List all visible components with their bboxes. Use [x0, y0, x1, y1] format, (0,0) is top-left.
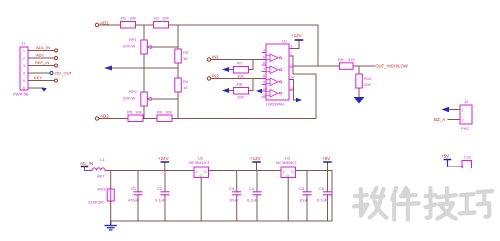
- svg-text:C6: C6: [319, 186, 325, 191]
- connector J1: [13, 41, 29, 97]
- svg-text:REF_IN: REF_IN: [35, 60, 49, 65]
- svg-text:AD2: AD2: [36, 53, 45, 58]
- svg-text:U3: U3: [285, 156, 291, 161]
- svg-text:20K-W: 20K-W: [123, 96, 135, 101]
- svg-text:R8: R8: [237, 82, 243, 87]
- wire J2 pin2: [448, 119, 460, 121]
- svg-text:10K: 10K: [129, 16, 136, 21]
- svg-text:U2: U2: [198, 156, 204, 161]
- svg-text:BZ_A: BZ_A: [434, 117, 445, 122]
- node IN1 pin: [207, 55, 219, 62]
- resistor R2: [154, 16, 170, 29]
- svg-text:LM339AN: LM339AN: [266, 102, 284, 107]
- power flag +5V: [322, 156, 331, 171]
- resistor R9: [338, 57, 355, 69]
- node IN2 pin: [207, 74, 219, 81]
- svg-text:+5V: +5V: [322, 156, 330, 161]
- svg-text:+5V: +5V: [441, 154, 449, 159]
- wire: [85, 170, 93, 172]
- capacitor C5: [299, 171, 311, 222]
- svg-text:5: 5: [263, 56, 265, 60]
- pad pin3: [55, 64, 58, 67]
- wire bottom rail right: [172, 74, 316, 119]
- ground symbol R10: [354, 97, 365, 104]
- ground arrow R8: [222, 88, 229, 93]
- watermark 软件技巧: [354, 188, 492, 220]
- svg-text:PH2: PH2: [461, 126, 470, 131]
- comparator input dashes: [267, 56, 270, 95]
- svg-text:L1: L1: [100, 157, 105, 162]
- svg-text:RV1: RV1: [98, 187, 106, 192]
- svg-text:R1: R1: [121, 16, 127, 21]
- svg-text:U1: U1: [282, 39, 288, 44]
- wire: [448, 166, 463, 168]
- svg-text:0.1uF: 0.1uF: [247, 198, 258, 203]
- potentiometer RP1: [123, 37, 151, 54]
- svg-text:+24V: +24V: [158, 156, 169, 161]
- ground arrow left: [104, 66, 112, 71]
- svg-text:2: 2: [23, 57, 25, 61]
- char 件: [392, 188, 418, 220]
- wire top rail right: [169, 25, 319, 66]
- node AD1 pin: [95, 21, 109, 27]
- wire drop to shunt R8: [252, 79, 254, 91]
- svg-text:MC78M12CT: MC78M12CT: [189, 161, 211, 165]
- wire J1 pin3: [28, 65, 54, 67]
- wire ground rail: [111, 220, 332, 222]
- pin numbers: [263, 45, 294, 98]
- svg-text:R5: R5: [127, 110, 133, 115]
- wire: [177, 63, 179, 78]
- svg-text:10K: 10K: [162, 16, 169, 21]
- wire: [136, 24, 154, 26]
- varistor RV1: [88, 187, 114, 205]
- svg-text:6: 6: [23, 87, 25, 91]
- node +5V_OUT label: [50, 71, 72, 76]
- wire feedback loop C-D: [289, 80, 294, 91]
- char 技: [426, 188, 456, 219]
- SECTION: power supply bottom: [80, 156, 332, 230]
- wire right end: [331, 171, 333, 222]
- ground arrow right of U1: [296, 98, 302, 102]
- resistor R8: [234, 82, 249, 100]
- svg-text:8: 8: [263, 75, 265, 79]
- capacitor C2: [155, 171, 169, 222]
- wire J1 pin2: [28, 57, 54, 59]
- svg-text:10K: 10K: [165, 110, 172, 115]
- ground arrow R7: [222, 67, 229, 72]
- wire J1 pin1: [28, 50, 54, 52]
- wire: [249, 69, 254, 71]
- svg-text:4: 4: [263, 49, 265, 53]
- svg-text:C3: C3: [229, 186, 235, 191]
- svg-text:10K: 10K: [237, 74, 244, 79]
- svg-text:R10: R10: [364, 76, 372, 81]
- svg-text:1K: 1K: [183, 56, 188, 61]
- op-amp U1 LM339: [262, 39, 294, 107]
- ground J1 pin6: [41, 88, 47, 92]
- wire RP2 wiper: [151, 98, 178, 100]
- node AD2 pin: [95, 114, 109, 121]
- svg-text:IN2: IN2: [212, 74, 220, 79]
- power flag +5V small: [441, 154, 451, 167]
- wire IN1 to U1: [211, 59, 266, 61]
- ground arrow U1 input: [256, 89, 262, 93]
- svg-text:R7: R7: [237, 61, 243, 66]
- wire junction down: [358, 66, 360, 74]
- svg-text:LS1: LS1: [464, 155, 472, 160]
- wire drop to shunt R7: [252, 60, 254, 70]
- svg-text:C2: C2: [157, 186, 163, 191]
- resistor R4: [175, 78, 189, 92]
- wire: [262, 90, 266, 92]
- wire comparator out to R9: [293, 65, 339, 67]
- wire to gnd arrow: [294, 90, 297, 100]
- pin stubs right: [289, 49, 293, 91]
- resistor R1: [121, 16, 137, 29]
- capacitor C4: [247, 171, 261, 222]
- node AC input: [80, 161, 93, 171]
- svg-text:PWR-5B: PWR-5B: [13, 92, 29, 97]
- comparator A: [270, 54, 278, 62]
- wire R9 to label: [353, 65, 373, 67]
- power flag +12V raw: [158, 156, 169, 171]
- svg-text:+5V_OUT: +5V_OUT: [54, 71, 72, 76]
- comparator B: [270, 66, 278, 74]
- svg-text:5: 5: [23, 79, 25, 83]
- svg-text:2: 2: [290, 52, 292, 56]
- svg-text:2: 2: [462, 119, 464, 123]
- wire right divider vertical top: [177, 25, 179, 49]
- svg-text:C4: C4: [249, 186, 255, 191]
- svg-text:RP2: RP2: [129, 89, 138, 94]
- regulator U2 7812: [189, 156, 211, 222]
- wire output A stub: [289, 55, 293, 57]
- svg-text:R2: R2: [154, 16, 160, 21]
- char 巧: [460, 191, 492, 217]
- wire: [143, 54, 145, 92]
- svg-text:+12V: +12V: [250, 156, 261, 161]
- svg-text:0.1uF: 0.1uF: [155, 198, 166, 203]
- power +12V flag U1: [291, 33, 303, 49]
- resistor R5: [127, 110, 143, 122]
- svg-text:1: 1: [23, 49, 25, 53]
- wire: [177, 92, 179, 118]
- wire: [229, 90, 233, 92]
- svg-text:11: 11: [263, 93, 267, 97]
- wire: [229, 69, 233, 71]
- svg-text:3: 3: [23, 64, 25, 68]
- svg-text:7: 7: [263, 68, 265, 72]
- comparator C: [270, 78, 278, 86]
- wire gnd arrow to divider: [112, 67, 178, 69]
- svg-text:R9: R9: [338, 57, 344, 62]
- wire: [110, 201, 112, 221]
- svg-text:O: O: [204, 170, 207, 174]
- svg-text:3: 3: [290, 45, 292, 49]
- svg-text:KEY: KEY: [34, 75, 42, 80]
- svg-text:470: 470: [348, 57, 355, 62]
- connector J2: [460, 99, 472, 131]
- svg-text:C5: C5: [299, 186, 305, 191]
- wire J1 pin4: [28, 72, 50, 74]
- svg-text:10: 10: [263, 87, 267, 91]
- wire: [143, 106, 145, 118]
- wire RP1 wiper to R3 top: [151, 46, 178, 48]
- svg-text:6: 6: [263, 61, 265, 65]
- svg-text:MC78M05CT: MC78M05CT: [276, 161, 298, 165]
- svg-text:4: 4: [23, 72, 25, 76]
- svg-text:»OUT_HIGH/LOW: »OUT_HIGH/LOW: [373, 64, 408, 69]
- inductor L1: [92, 157, 105, 179]
- pin stubs left: [262, 53, 266, 98]
- pad pin5: [55, 79, 58, 82]
- wire: [358, 88, 360, 97]
- svg-text:S10K300: S10K300: [88, 200, 105, 205]
- svg-text:RP1: RP1: [129, 37, 138, 42]
- ground power: [105, 221, 116, 230]
- ground arrow J2: [442, 107, 450, 112]
- svg-text:10uF: 10uF: [229, 198, 239, 203]
- wire: [110, 171, 112, 190]
- svg-text:1: 1: [195, 170, 197, 174]
- svg-text:AC_IN: AC_IN: [80, 161, 93, 166]
- wire output bus vertical: [292, 56, 294, 74]
- resistor R6: [157, 110, 172, 122]
- svg-text:AD2: AD2: [100, 114, 109, 119]
- svg-text:14: 14: [290, 76, 294, 80]
- svg-text:1: 1: [282, 170, 284, 174]
- svg-text:1: 1: [290, 63, 292, 67]
- resistor R10: [356, 74, 372, 88]
- wire J2 pin1: [449, 109, 460, 111]
- svg-text:1K: 1K: [183, 85, 188, 90]
- svg-text:0.1uF: 0.1uF: [317, 198, 328, 203]
- pad pin2: [55, 57, 58, 60]
- wire: [143, 118, 157, 120]
- wire bottom rail: [99, 118, 128, 120]
- svg-text:AD1_IN: AD1_IN: [36, 45, 50, 50]
- SECTION: right small parts: [434, 99, 472, 168]
- resistor R3: [175, 49, 189, 63]
- svg-text:IN1: IN1: [212, 55, 220, 60]
- wire loop to bottom rail: [293, 73, 316, 75]
- power flag +12V: [250, 156, 261, 171]
- comparator D: [270, 90, 278, 98]
- pad pin1: [55, 49, 58, 52]
- svg-text:10K: 10K: [364, 82, 371, 87]
- svg-text:R3: R3: [183, 50, 189, 55]
- wire vcc rail: [105, 170, 332, 172]
- svg-text:+12V: +12V: [291, 33, 302, 38]
- svg-text:1: 1: [462, 109, 464, 113]
- resistor R7: [234, 61, 249, 79]
- svg-text:10K: 10K: [237, 95, 244, 100]
- wire: [249, 90, 254, 92]
- regulator U3 7805: [276, 156, 298, 222]
- wire IN2 to U1: [211, 78, 266, 80]
- wire J1 pin6: [28, 87, 44, 89]
- wire J1 pin5: [28, 80, 54, 82]
- svg-text:4R7: 4R7: [97, 174, 105, 179]
- capacitor C3: [229, 171, 241, 222]
- capacitor C1 electrolytic: [128, 171, 142, 222]
- svg-text:10K: 10K: [135, 110, 142, 115]
- potentiometer RP2: [123, 89, 151, 106]
- svg-text:20K-W: 20K-W: [123, 44, 135, 49]
- wire left divider vertical: [143, 25, 145, 40]
- svg-text:9: 9: [263, 81, 265, 85]
- buzzer LS1: [462, 155, 472, 168]
- capacitor C6: [317, 171, 332, 222]
- char 软: [354, 188, 386, 218]
- svg-text:O: O: [291, 170, 294, 174]
- svg-text:R4: R4: [183, 79, 189, 84]
- wire top rail: [99, 24, 120, 26]
- svg-text:R6: R6: [157, 110, 163, 115]
